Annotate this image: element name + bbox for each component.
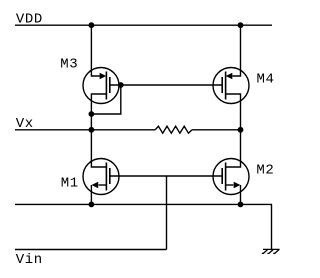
junction dot Vx/right column bbox=[238, 127, 244, 133]
transistor M2 body circle bbox=[213, 159, 249, 195]
junction dot VDD/left column bbox=[89, 22, 95, 28]
junction dot M3 drain/feedback bbox=[89, 111, 95, 117]
svg-text:M1: M1 bbox=[61, 176, 79, 192]
svg-text:Vin: Vin bbox=[16, 252, 43, 268]
transistor M1 gate bar bbox=[109, 168, 111, 184]
wire M4 drain lead to Vx column bbox=[226, 94, 241, 130]
resistor R1 bbox=[155, 126, 192, 133]
transistor M4 channel bar bbox=[225, 72, 227, 100]
transistor M1 source arrow bbox=[92, 182, 99, 189]
transistor M3 body circle bbox=[83, 68, 119, 104]
wire M1 source lead to rail bbox=[99, 184, 107, 186]
wire M1-M2 gate wire bbox=[110, 175, 222, 177]
ground symbol bbox=[262, 249, 280, 253]
wire Vin line bbox=[15, 249, 167, 251]
svg-text:VDD: VDD bbox=[16, 12, 43, 28]
transistor M4 gate bar bbox=[221, 77, 223, 93]
transistor M1 channel bar bbox=[105, 163, 107, 191]
transistor M3 gate bar bbox=[109, 77, 111, 93]
wire M3-M4 gate wire bbox=[110, 84, 222, 86]
junction dot VDD/right column bbox=[238, 22, 244, 28]
wire M1 drain lead from Vx bbox=[91, 130, 106, 167]
wire M3 gate-drain feedback bbox=[91, 85, 120, 114]
wire M2 source lead to rail bbox=[226, 184, 234, 186]
op: transistor M2 (NMOS, mirror) bbox=[213, 130, 249, 205]
wire M2 drain lead from Vx bbox=[226, 130, 241, 167]
wire Vin vertical to gates bbox=[166, 176, 168, 250]
wire VDD rail bbox=[15, 24, 272, 26]
junction dot source rail/M1 bbox=[89, 202, 95, 208]
svg-text:M4: M4 bbox=[257, 72, 275, 88]
junction dot M3 gate node bbox=[118, 82, 124, 88]
wire Vx rail left segment bbox=[15, 129, 155, 131]
svg-text:Vx: Vx bbox=[16, 116, 34, 132]
wire M3 source lead from VDD bbox=[91, 25, 99, 76]
junction dot source rail/M2 bbox=[238, 202, 244, 208]
transistor M4 body circle bbox=[213, 68, 249, 104]
transistor M2 channel bar bbox=[225, 163, 227, 191]
op: transistor M3 (PMOS, diode-connected) bbox=[83, 25, 119, 130]
junction dot Vx/left column bbox=[89, 127, 95, 133]
svg-text:M2: M2 bbox=[256, 163, 274, 179]
transistor M2 gate bar bbox=[221, 168, 223, 184]
transistor M2 source arrow bbox=[234, 182, 241, 189]
wire source rail bbox=[15, 203, 272, 205]
wire Vx rail right segment bbox=[192, 129, 241, 131]
transistor M4 source arrow bbox=[226, 73, 233, 80]
op: transistor M4 (PMOS, mirror) bbox=[213, 25, 249, 130]
wire ground drop bbox=[271, 204, 273, 249]
transistor M1 body circle bbox=[83, 159, 119, 195]
wire M3 drain lead to Vx column bbox=[91, 94, 106, 130]
op: transistor M1 (NMOS) bbox=[83, 130, 119, 205]
transistor M3 source arrow bbox=[100, 73, 107, 80]
transistor M3 channel bar bbox=[105, 72, 107, 100]
wire M4 source lead from VDD bbox=[232, 25, 240, 76]
svg-text:M3: M3 bbox=[60, 57, 78, 73]
